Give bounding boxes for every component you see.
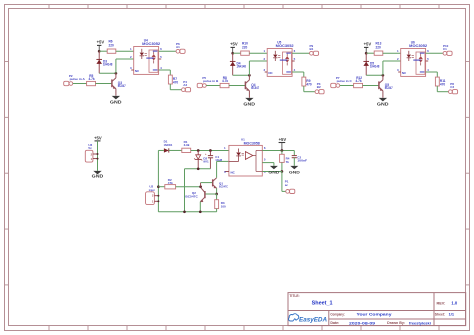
- svg-text:Your Company: Your Company: [357, 312, 393, 317]
- svg-text:3.9k: 3.9k: [184, 143, 190, 147]
- resistor R5 4.7k: [87, 74, 96, 86]
- wire U5 pin 4 to R9: [292, 72, 304, 77]
- svg-text:BC547: BC547: [251, 86, 259, 90]
- connector P3 B2: [315, 82, 324, 94]
- transistor Q5 BC547: [379, 75, 393, 98]
- title block frame: [288, 293, 466, 326]
- svg-text:9V1: 9V1: [203, 160, 209, 164]
- svg-text:Date:: Date:: [330, 321, 339, 325]
- svg-text:470: 470: [440, 83, 446, 87]
- connector P4 A2: [182, 80, 191, 92]
- wire P5 to R8: [206, 85, 220, 87]
- wire R1 to U1 pin 1: [191, 149, 229, 151]
- wire collector node to U6 pin 2: [383, 61, 401, 75]
- resistor R7 470: [168, 75, 178, 84]
- svg-text:+5V: +5V: [230, 41, 238, 46]
- junction R4 bottom node: [281, 170, 284, 173]
- resistor R6 220: [107, 40, 116, 54]
- svg-text:A2: A2: [183, 83, 187, 87]
- connector P9 B1: [310, 44, 319, 56]
- ground flag below C2: [289, 166, 300, 175]
- svg-text:1N4148: 1N4148: [103, 63, 113, 67]
- svg-text:Drawn By:: Drawn By:: [387, 321, 405, 325]
- wire collector node to U4 pin 2: [116, 59, 134, 73]
- wire R6 to U4 pin 1: [116, 50, 134, 52]
- wire R11 to P8: [437, 86, 448, 92]
- wire base node up to Q1 base: [201, 183, 212, 187]
- border zone ticks top: [49, 5, 439, 9]
- wire R13 to U6 pin 1: [383, 52, 401, 54]
- svg-text:220: 220: [376, 46, 382, 50]
- svg-text:1N4004: 1N4004: [164, 143, 173, 147]
- connector P7 pulse in C: [331, 76, 353, 88]
- svg-text:100: 100: [221, 204, 226, 208]
- wire Q1 collector to U1 pin 2: [217, 161, 229, 177]
- connector P8 C2: [449, 82, 458, 94]
- resistor R3 100: [215, 194, 226, 209]
- svg-text:REV:: REV:: [437, 302, 446, 306]
- channel B driver block: [0, 0, 1, 1]
- border zone ticks left: [5, 62, 9, 285]
- wire collector node to U5 pin 2: [249, 61, 267, 75]
- svg-text:4.7k: 4.7k: [222, 79, 228, 83]
- resistor R9 470: [302, 77, 312, 86]
- resistor R4 1k: [280, 150, 290, 171]
- junction Q1 base node: [199, 185, 202, 188]
- wire P2 to R5: [73, 83, 87, 85]
- svg-text:Sheet_1: Sheet_1: [312, 300, 333, 306]
- wire U1 pin 6 rail to C2: [262, 149, 294, 151]
- junction D2 bottom: [197, 167, 200, 170]
- svg-text:1/1: 1/1: [449, 312, 455, 317]
- ground flag below Q3: [110, 96, 122, 105]
- power flag +5V (U4 block): [97, 39, 105, 51]
- wire +5V to resistor R13: [366, 52, 374, 54]
- svg-text:1N4148: 1N4148: [370, 65, 380, 69]
- power flag +5V (U5 block): [230, 41, 238, 53]
- ground flag below U3: [92, 171, 104, 179]
- resistor R12 4.7k: [354, 76, 363, 88]
- EasyEDA logo: [289, 314, 328, 324]
- svg-text:input: input: [149, 188, 155, 192]
- junction bottom rail left drop: [183, 210, 186, 213]
- svg-text:47k: 47k: [168, 181, 173, 185]
- svg-text:C2: C2: [450, 85, 454, 89]
- capacitor C2 100nF: [292, 150, 308, 165]
- svg-text:1.0: 1.0: [451, 301, 457, 306]
- svg-text:4.7k: 4.7k: [89, 77, 95, 81]
- diode D3 1N4148: [96, 51, 112, 73]
- wire Q2 emitter to bottom rail: [199, 202, 201, 212]
- wire diode D3 to collector node: [99, 72, 116, 74]
- wire D1 to R1: [169, 149, 182, 151]
- wire U4 pin 6 to P6: [159, 50, 177, 52]
- resistor R10 220: [241, 42, 250, 56]
- svg-text:GND: GND: [268, 169, 279, 174]
- resistor R2 47k: [165, 178, 176, 189]
- svg-text:Company:: Company:: [330, 313, 345, 317]
- svg-text:4.7k: 4.7k: [356, 79, 362, 83]
- svg-text:ac: ac: [285, 184, 288, 187]
- optocoupler U5 MOC3052: [263, 41, 295, 77]
- svg-text:freestyleski: freestyleski: [409, 320, 431, 325]
- wire rail to R2: [158, 186, 165, 188]
- resistor R8 4.7k: [220, 76, 229, 88]
- wire U4 pin 4 to R7: [159, 70, 171, 75]
- wire bottom rail: [158, 211, 216, 213]
- wire R2 to Q1 base node: [176, 186, 201, 188]
- svg-text:+5V: +5V: [94, 135, 102, 140]
- svg-text:2020-08-09: 2020-08-09: [349, 320, 376, 325]
- wire U6 pin 6 to P10: [426, 52, 444, 54]
- junction bottom rail Q2 emitter: [199, 210, 202, 213]
- ground flag below Q4: [243, 98, 255, 107]
- svg-text:MOC3052: MOC3052: [142, 42, 160, 46]
- svg-text:470: 470: [306, 83, 312, 87]
- power flag +5V (U3): [94, 135, 102, 141]
- connector P2 pulse in A: [64, 74, 86, 86]
- svg-text:+5V: +5V: [279, 137, 287, 142]
- wire +5V to GND through U3 pins: [97, 141, 99, 171]
- junction Q1 emitter node: [215, 193, 218, 196]
- zener diode D2 9V1: [194, 150, 209, 168]
- svg-text:pulse in B: pulse in B: [203, 79, 219, 83]
- channel A driver block: [0, 0, 1, 1]
- svg-text:BC547C: BC547C: [219, 185, 229, 189]
- svg-text:pulse in C: pulse in C: [337, 79, 353, 83]
- svg-text:5v: 5v: [88, 146, 92, 150]
- wire diode D4 to collector node: [233, 74, 250, 76]
- transistor Q1 BC547C: [213, 178, 229, 189]
- wire R7 to P4: [170, 84, 181, 90]
- wire R9 to P3: [304, 86, 315, 92]
- svg-text:P1: P1: [285, 179, 289, 183]
- wire left drop to bottom rail: [184, 169, 186, 212]
- wire R12 to base of Q5: [363, 85, 379, 87]
- border zone ticks right: [466, 62, 470, 285]
- junction +5V rail (U6 block): [365, 52, 368, 55]
- svg-text:BC547: BC547: [385, 86, 393, 90]
- border zone ticks bottom: [49, 326, 439, 331]
- resistor R11 470: [435, 77, 445, 86]
- wire R5 to base of Q3: [96, 83, 112, 85]
- svg-text:+5V: +5V: [364, 41, 372, 46]
- wire Q1 emitter to R3 node: [216, 188, 218, 194]
- wire U6 pin 4 to R11: [426, 72, 438, 77]
- svg-text:TITLE:: TITLE:: [289, 294, 299, 298]
- power flag +5V (U1): [279, 137, 287, 150]
- svg-text:GND: GND: [243, 102, 255, 107]
- junction +5V rail (U5 block): [231, 52, 234, 55]
- svg-text:7k: 7k: [286, 160, 290, 164]
- power flag +5V (U6 block): [364, 41, 372, 53]
- connector P6 A1: [176, 42, 185, 54]
- svg-text:+5V: +5V: [97, 39, 105, 44]
- wire P7 to R12: [340, 85, 354, 87]
- svg-text:Sheet:: Sheet:: [435, 313, 445, 317]
- svg-text:B2: B2: [317, 85, 321, 89]
- wire +5V to resistor R6: [99, 50, 107, 52]
- svg-text:GND: GND: [110, 100, 122, 105]
- transistor Q3 BC547: [112, 73, 126, 96]
- wire left rail of zero-cross block: [158, 150, 164, 211]
- svg-text:100nF: 100nF: [297, 158, 307, 162]
- wire diode D5 to collector node: [366, 74, 383, 76]
- optocoupler U4 MOC3052: [130, 39, 162, 75]
- svg-text:GND: GND: [289, 169, 300, 174]
- capacitor C1 10uF: [205, 150, 222, 168]
- wire +5V to resistor R10: [233, 52, 241, 54]
- svg-text:470: 470: [173, 81, 179, 85]
- diode D5 1N4148: [363, 53, 379, 75]
- svg-text:A1: A1: [176, 45, 180, 49]
- wire U5 pin 6 to P9: [292, 52, 310, 54]
- wire R8 to base of Q4: [229, 85, 245, 87]
- svg-text:BC547C: BC547C: [185, 194, 198, 198]
- junction U2 pin 1 on rail: [157, 200, 159, 202]
- wire R3 to bottom rail: [216, 209, 218, 212]
- svg-text:220: 220: [109, 44, 115, 48]
- svg-text:MOC3052: MOC3052: [409, 44, 427, 48]
- optocoupler U6 MOC3052: [397, 41, 429, 77]
- diode D4 1N4148: [230, 53, 246, 75]
- svg-text:pulse in A: pulse in A: [70, 77, 86, 81]
- connector U3 5v power input: [85, 143, 97, 162]
- svg-text:C1: C1: [443, 47, 447, 51]
- wire R10 to U5 pin 1: [249, 52, 267, 54]
- junction node at D2: [197, 149, 200, 152]
- svg-text:MOC3052: MOC3052: [276, 44, 294, 48]
- channel C driver block: [0, 0, 1, 1]
- junction U3 pin 2: [97, 153, 99, 155]
- svg-text:MOC3058: MOC3058: [244, 142, 260, 146]
- junction +5V rail (U4 block): [98, 50, 101, 53]
- svg-text:B1: B1: [310, 47, 314, 51]
- svg-text:GND: GND: [377, 102, 389, 107]
- connector U2 input: [146, 185, 159, 205]
- svg-text:BC547: BC547: [118, 84, 126, 88]
- svg-text:EasyEDA: EasyEDA: [299, 317, 328, 324]
- svg-text:220: 220: [242, 46, 248, 50]
- connector P1 ac: [285, 179, 295, 193]
- wire zener/cap bottom rail: [185, 168, 211, 170]
- junction collector node (Q3): [115, 72, 118, 75]
- transistor Q4 BC547: [245, 75, 259, 98]
- junction collector node (Q4): [248, 74, 251, 77]
- connector P5 pulse in B: [197, 76, 219, 88]
- junction node at C1: [209, 149, 212, 152]
- junction +5V on pin-6 rail: [281, 149, 284, 152]
- transistor Q2 BC547C: [185, 187, 205, 202]
- junction collector node (Q5): [382, 74, 385, 77]
- ground flag below Q5: [377, 98, 389, 107]
- svg-text:1N4148: 1N4148: [237, 65, 247, 69]
- optocoupler U1 MOC3058: [220, 137, 266, 176]
- wire emitter node to Q2 base: [205, 193, 217, 195]
- junction input rail to R2 wire: [157, 185, 160, 188]
- svg-text:GND: GND: [92, 174, 104, 179]
- wire U1 pin 4 to R4 bottom node: [262, 171, 282, 173]
- ground flag U1 pin 5: [262, 163, 279, 175]
- resistor R1 3.9k: [182, 140, 191, 153]
- junction U3 pin 1: [97, 158, 99, 160]
- resistor R13 220: [374, 42, 383, 56]
- diode D1 1N4004: [164, 140, 173, 153]
- junction U2 pin 2 on rail: [157, 195, 159, 197]
- wire R4 node down to P1: [282, 172, 286, 192]
- connector P10 C1: [443, 44, 452, 56]
